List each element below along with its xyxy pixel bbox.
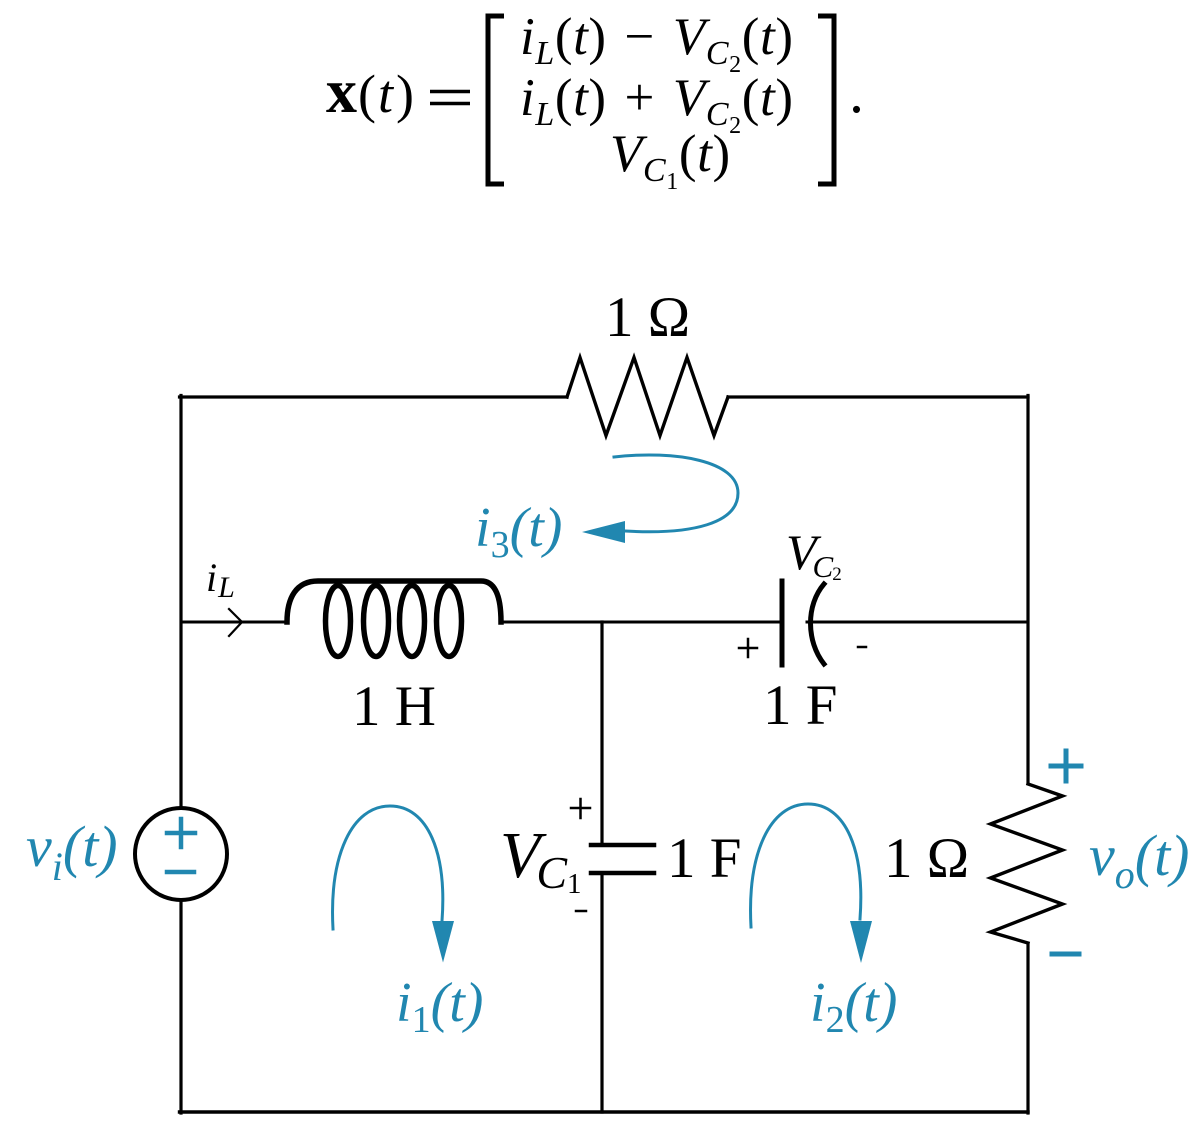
output minus sign (teal) <box>1052 952 1079 957</box>
wire middle horizontal inductor to C2 <box>501 621 780 624</box>
capacitor C2 left plate <box>780 581 785 665</box>
capacitor C1 bottom plate <box>591 871 654 876</box>
svg-text:i2(t): i2(t) <box>810 972 897 1041</box>
svg-text:VC2: VC2 <box>786 524 842 585</box>
voltage source plus sign <box>167 819 195 847</box>
wire bottom horizontal <box>180 1110 1029 1113</box>
iL current arrow on wire <box>229 609 242 636</box>
mesh current arrow i2 <box>751 804 861 927</box>
svg-text:VC1(t): VC1(t) <box>610 125 731 195</box>
mesh current arrow i1 <box>333 806 443 929</box>
matrix right bracket <box>818 16 834 184</box>
svg-text:VC1: VC1 <box>500 819 582 900</box>
wire left vertical upper <box>179 396 182 809</box>
mesh current arrow i3 <box>614 455 738 532</box>
C1 plus sign <box>571 799 590 818</box>
wire right vertical upper <box>1026 396 1029 784</box>
voltage source vi circle <box>135 808 227 900</box>
wire top horizontal left of R <box>180 395 568 398</box>
svg-text:1 F: 1 F <box>763 674 837 737</box>
svg-text:iL(t) + VC2(t): iL(t) + VC2(t) <box>520 69 794 139</box>
capacitor C2 right curved plate <box>811 584 825 664</box>
resistor RL 1 ohm (right) <box>991 784 1063 943</box>
svg-text:x(t): x(t) <box>326 58 414 126</box>
equation x(t) = [...] <box>326 8 864 195</box>
wire middle vertical upper <box>600 622 603 845</box>
C1 minus sign <box>576 910 586 913</box>
resistor R3 1 ohm (top) <box>567 358 728 436</box>
svg-text:.: . <box>849 59 864 125</box>
C2 plus sign <box>739 639 757 657</box>
svg-text:1 F: 1 F <box>667 827 741 890</box>
svg-text:iL: iL <box>206 555 235 604</box>
svg-text:iL(t) − VC2(t): iL(t) − VC2(t) <box>520 8 794 78</box>
voltage source minus sign <box>167 870 194 875</box>
svg-text:vo(t): vo(t) <box>1089 823 1190 897</box>
output plus sign (teal) <box>1051 751 1081 781</box>
wire middle horizontal from left wire to inductor <box>181 621 287 624</box>
svg-text:i3(t): i3(t) <box>475 497 562 566</box>
matrix left bracket <box>488 16 504 184</box>
capacitor C1 top plate <box>591 843 654 848</box>
wire middle horizontal C2 to right wire <box>807 621 1028 624</box>
svg-text:i1(t): i1(t) <box>396 972 483 1041</box>
wire top horizontal right of R <box>728 395 1028 398</box>
svg-text:vi(t): vi(t) <box>26 814 118 889</box>
svg-text:1 H: 1 H <box>352 675 436 738</box>
inductor L1 1H <box>287 581 501 657</box>
svg-text:1 Ω: 1 Ω <box>884 827 969 890</box>
wire right vertical lower <box>1026 944 1029 1113</box>
wire middle vertical lower <box>600 873 603 1112</box>
C2 minus sign <box>858 646 866 649</box>
svg-text:1 Ω: 1 Ω <box>605 286 690 349</box>
wire left vertical lower <box>179 901 182 1113</box>
